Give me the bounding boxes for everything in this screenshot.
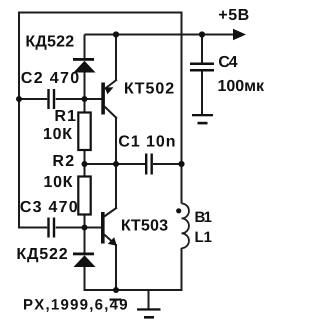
wire C4 top lead (201, 35, 203, 63)
wire C3 row right (56, 227, 101, 229)
wire VD1 anode to base node (84, 72, 86, 99)
diode VD2 KD522 (73, 253, 96, 268)
capacitor C2 (47, 89, 55, 109)
label KT503 (122, 219, 168, 230)
resistor R1 (78, 113, 90, 151)
capacitor C1 (145, 154, 153, 175)
wire left feedback (18, 12, 20, 229)
wire R1 leads (84, 99, 86, 113)
node R1-R2 (82, 161, 88, 167)
ground bottom (137, 308, 161, 318)
ground stem bottom (148, 290, 150, 309)
ground for C4 (192, 114, 213, 124)
transistor Q1 KT502 (101, 80, 117, 119)
wire R2 bottom lead (84, 214, 86, 228)
wire KT502 emitter vertical (115, 35, 117, 81)
label C2 470 (22, 72, 79, 83)
label B1 (196, 212, 212, 222)
wire VD2 anode to bottom (84, 266, 86, 291)
label C4 (219, 56, 238, 67)
wire C2 row right (56, 98, 102, 100)
transistor Q2 KT503 (101, 208, 117, 246)
label KD522 top (27, 35, 74, 49)
label KT502 (125, 82, 174, 93)
node emitter Q1 rail (113, 31, 119, 37)
resistor R2 (78, 177, 90, 215)
label R1 value 10K (44, 128, 72, 139)
wire KT503 collector vertical (115, 164, 117, 209)
wire VD2 stem (84, 228, 86, 255)
label R1 (56, 110, 76, 121)
power arrow +5V (233, 29, 246, 40)
wire middle row C1 left (85, 163, 146, 165)
node emitter Q2 bottom (113, 287, 119, 293)
inductor L1 winding (182, 204, 189, 249)
label 100uF (219, 80, 265, 91)
winding phase dot (176, 208, 181, 213)
node C4 rail (199, 31, 205, 37)
label C3 470 (21, 201, 78, 212)
wire KT502 collector vertical (115, 118, 117, 165)
wire right vertical (181, 12, 183, 204)
label +5V (219, 9, 249, 20)
diode VD1 KD522 (73, 58, 96, 73)
label R2 (54, 155, 74, 166)
wire bottom (84, 289, 183, 291)
wire VD1 stem (84, 35, 86, 60)
wire top feedback (19, 12, 182, 14)
node base Q2 (82, 225, 88, 231)
node C1 left (113, 161, 119, 167)
label source RX,1999,6,49 (24, 299, 127, 312)
wire +5V rail (85, 34, 236, 36)
node C2-left (16, 96, 22, 102)
label KD522 bottom (18, 248, 68, 262)
wire right vertical below coil (181, 248, 183, 291)
label L1 (196, 232, 212, 242)
wire C2 row (19, 98, 47, 100)
capacitor C4 (190, 63, 214, 72)
wire middle row C1 right (153, 163, 182, 165)
capacitor C3 (47, 218, 55, 238)
label C1 10n (119, 135, 175, 146)
wire C3 row (19, 227, 47, 229)
overline mark on 49 (110, 299, 122, 301)
wire C4 bottom lead (201, 72, 203, 115)
node C1 right (178, 161, 184, 167)
node base Q1 (82, 96, 88, 102)
wire R1 bottom lead (84, 149, 86, 177)
wire KT503 emitter vertical (115, 244, 117, 290)
label R2 value 10K (45, 176, 73, 187)
